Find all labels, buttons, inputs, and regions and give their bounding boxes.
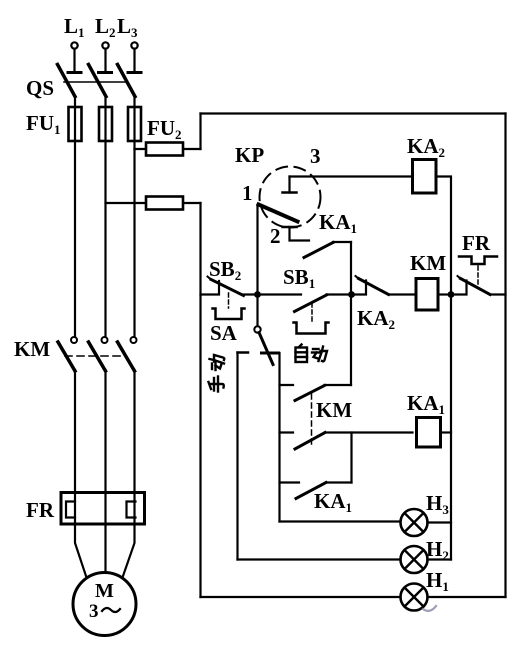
svg-text:H1: H1 (426, 568, 449, 594)
coil KA2 (407, 134, 445, 193)
fuse FU1 (26, 107, 141, 141)
coil KA1 (407, 391, 445, 447)
svg-text:KM: KM (410, 251, 446, 275)
svg-text:L2: L2 (95, 14, 116, 40)
wire SB2 to SB1 (244, 293, 302, 295)
wire right bus (504, 114, 506, 598)
svg-text:KA1: KA1 (407, 391, 445, 417)
wire left bus to lamp H1 (201, 596, 401, 598)
wire top bus (201, 112, 506, 114)
relay contact KA1 bottom (280, 483, 353, 516)
svg-text:KA1: KA1 (319, 210, 357, 236)
wire QS to FU1 phase2 (104, 96, 106, 107)
wire phase3 KM to FR (133, 370, 135, 493)
wire KA2 contact to KM coil (389, 293, 417, 295)
svg-text:SB2: SB2 (209, 257, 241, 283)
svg-text:KA2: KA2 (407, 134, 445, 160)
wire QS to FU1 phase1 (74, 96, 76, 107)
svg-text:FR: FR (26, 498, 55, 522)
svg-text:1: 1 (242, 181, 253, 205)
terminal L3 (117, 14, 138, 49)
pressure switch KP (235, 143, 321, 248)
fuse FU2 (106, 116, 201, 210)
wire L2 drop (104, 49, 106, 73)
node C junction (448, 291, 455, 298)
svg-text:KP: KP (235, 143, 264, 167)
disconnect switch QS (26, 65, 141, 101)
wire FR to motor phase1 (75, 525, 87, 578)
wire H3 to bus (428, 521, 452, 523)
terminal L1 (64, 14, 85, 49)
svg-text:QS: QS (26, 76, 54, 100)
wire KP terminal3 to KA2 coil (290, 175, 413, 177)
wire phase1 KM to FR (74, 370, 76, 493)
node B junction (348, 291, 355, 298)
scan artifact under lamp H1 (423, 606, 436, 611)
wire node C down to lamps bus (450, 295, 452, 560)
svg-text:2: 2 (270, 224, 281, 248)
wire phase2 KM to FR (104, 370, 106, 493)
svg-text:KA2: KA2 (357, 306, 395, 332)
wire SA manual branch down to H2 row (236, 353, 238, 560)
svg-text:KM: KM (316, 398, 352, 422)
contactor auxiliary contact KM lower (280, 433, 413, 450)
svg-text:L3: L3 (117, 14, 138, 40)
wire H1 to right bus (428, 596, 506, 598)
thermal relay FR heaters (26, 493, 145, 526)
svg-text:KM: KM (14, 337, 50, 361)
wire phase3 FU1 to KM (133, 141, 135, 337)
wire L3 drop (133, 49, 135, 73)
mechanical link KM contacts (311, 394, 313, 446)
lamp H2 (401, 537, 449, 573)
wire KA1 contact down to node B (350, 242, 352, 295)
svg-text:KA1: KA1 (314, 489, 352, 515)
wire link KM lower to KA1 contact (350, 433, 352, 483)
svg-text:3: 3 (89, 601, 99, 622)
svg-text:L1: L1 (64, 14, 85, 40)
wire KA2 coil to right drop (436, 177, 451, 295)
selector switch SA (210, 295, 279, 365)
pushbutton SB2 (201, 257, 245, 319)
wire KA1 coil to bus (441, 431, 452, 433)
svg-text:FU1: FU1 (26, 111, 61, 137)
pushbutton SB1 (283, 265, 329, 334)
wire FR to motor phase3 (123, 525, 135, 578)
relay contact KA1 top (304, 210, 357, 258)
wire phase2 FU1 to KM (104, 141, 106, 337)
svg-text:FR: FR (462, 231, 491, 255)
relay contact KA2 NC (352, 276, 396, 332)
wire KP terminal1 down to node A (256, 205, 258, 295)
svg-text:FU2: FU2 (147, 116, 182, 142)
thermal relay FR contact NC (451, 231, 506, 295)
wire SA auto branch down (278, 353, 280, 522)
wire L1 drop (73, 49, 75, 73)
terminal L2 (95, 14, 116, 49)
wire FR to motor phase2 (104, 525, 106, 573)
motor M (73, 573, 136, 636)
wire SB1 to node B (327, 293, 352, 295)
node A junction (254, 291, 261, 298)
contactor auxiliary contact KM upper (auto branch) (280, 385, 352, 401)
wire QS to FU1 phase3 (133, 96, 135, 107)
lamp H3 (401, 491, 450, 536)
lamp H1 (401, 568, 449, 611)
contactor KM main contacts (14, 337, 137, 371)
svg-text:M: M (95, 580, 114, 602)
wire manual branch to lamp H2 (238, 558, 401, 560)
svg-text:H3: H3 (426, 491, 449, 517)
wire H2 to bus (428, 558, 452, 560)
wire KM aux right side up to node B (350, 295, 352, 386)
wire phase1 FU1 to KM (74, 141, 76, 337)
label manual (hand-drawn 手动 rotated) (209, 355, 225, 392)
svg-text:3: 3 (310, 144, 321, 168)
coil KM (410, 251, 446, 310)
wire auto branch bottom to lamp H3 (280, 520, 401, 522)
wire KM coil to node C (438, 293, 451, 295)
wire left bus (199, 203, 201, 597)
label auto (hand-drawn 自动) (296, 345, 328, 363)
svg-text:SA: SA (210, 321, 238, 345)
wire FU2 up to top bus (199, 114, 201, 150)
svg-text:SB1: SB1 (283, 265, 315, 291)
